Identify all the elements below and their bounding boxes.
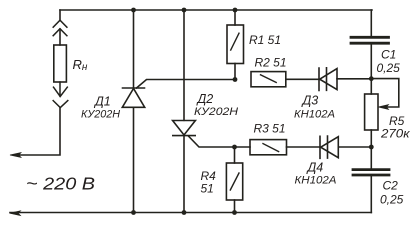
svg-text:270к: 270к <box>380 127 411 141</box>
node R1-R2 junction <box>233 77 238 82</box>
svg-text:R3 51: R3 51 <box>254 122 286 136</box>
wire D2 gate to node <box>189 136 251 147</box>
svg-text:~ 220 В: ~ 220 В <box>26 174 95 194</box>
wire Rn down to left terminal <box>14 108 60 155</box>
wire right vertical (top to C1) <box>370 10 372 36</box>
resistor R1 <box>227 25 244 64</box>
node bottom D2 <box>182 210 187 215</box>
connector chevrons below Rn <box>53 82 68 108</box>
wire R4 top <box>234 147 236 163</box>
wire D2 vertical anode <box>183 10 185 120</box>
thyristor D1 <box>123 87 145 89</box>
terminal arrow upper left <box>10 153 21 158</box>
wire R5 wiper loop <box>371 79 399 107</box>
svg-text:C2: C2 <box>383 179 399 193</box>
svg-text:C1: C1 <box>381 48 396 62</box>
svg-text:Д4: Д4 <box>306 161 324 175</box>
svg-text:51: 51 <box>201 182 214 196</box>
svg-text:R1 51: R1 51 <box>249 33 281 47</box>
wire R1 bottom to node <box>234 64 236 80</box>
wire bottom rail <box>10 212 371 214</box>
svg-text:0,25: 0,25 <box>380 193 404 207</box>
node bottom D1 <box>131 210 136 215</box>
node bottom R4 <box>232 210 237 215</box>
dinistor D3 <box>319 68 327 91</box>
svg-text:R2 51: R2 51 <box>255 56 287 70</box>
resistor R2 <box>251 72 286 87</box>
rheostat R5 <box>365 94 378 130</box>
capacitor C1 <box>351 37 389 43</box>
wire R4 bottom <box>234 200 236 213</box>
node top D1 <box>131 8 136 13</box>
svg-text:КУ202Н: КУ202Н <box>81 109 120 121</box>
wire D4 to right node <box>338 146 371 148</box>
wire top rail <box>60 9 372 11</box>
thyristor D2 <box>173 121 196 136</box>
wire C2 down to bottom rail <box>370 176 372 213</box>
capacitor C2 <box>353 170 389 175</box>
wire D1 gate to node <box>137 80 236 89</box>
dinistor D4 <box>320 136 328 158</box>
node C1-R5-D3 <box>369 76 374 81</box>
wire left column top (corner to Rn) <box>59 10 61 45</box>
svg-text:0,25: 0,25 <box>377 61 401 75</box>
svg-text:КН102А: КН102А <box>295 175 337 187</box>
resistor R3 <box>250 140 287 155</box>
wire D3 to right node <box>337 78 371 80</box>
wire R3 to D4 <box>287 146 321 148</box>
node top R1 <box>233 8 238 13</box>
wire R2 to D3 <box>286 78 319 80</box>
node R5-C2-D4 <box>369 145 374 150</box>
arrow into R5 <box>379 105 389 110</box>
connector chevrons above Rn <box>53 20 67 36</box>
node top D2 <box>182 8 187 13</box>
svg-text:Д3: Д3 <box>301 94 319 108</box>
terminal arrow lower left <box>10 211 21 216</box>
node R3-R4 junction <box>232 145 237 150</box>
wire R5 bottom to node <box>370 130 372 168</box>
svg-text:КУ202Н: КУ202Н <box>194 106 238 118</box>
wire D1 vertical anode <box>133 10 135 88</box>
wire R1 top <box>234 10 236 25</box>
svg-text:Д2: Д2 <box>196 92 214 106</box>
svg-text:Д1: Д1 <box>93 95 111 109</box>
resistor Rn <box>54 45 67 82</box>
resistor R4 <box>226 163 242 200</box>
wire C1 to node <box>370 45 372 95</box>
svg-text:КН102А: КН102А <box>294 109 335 121</box>
